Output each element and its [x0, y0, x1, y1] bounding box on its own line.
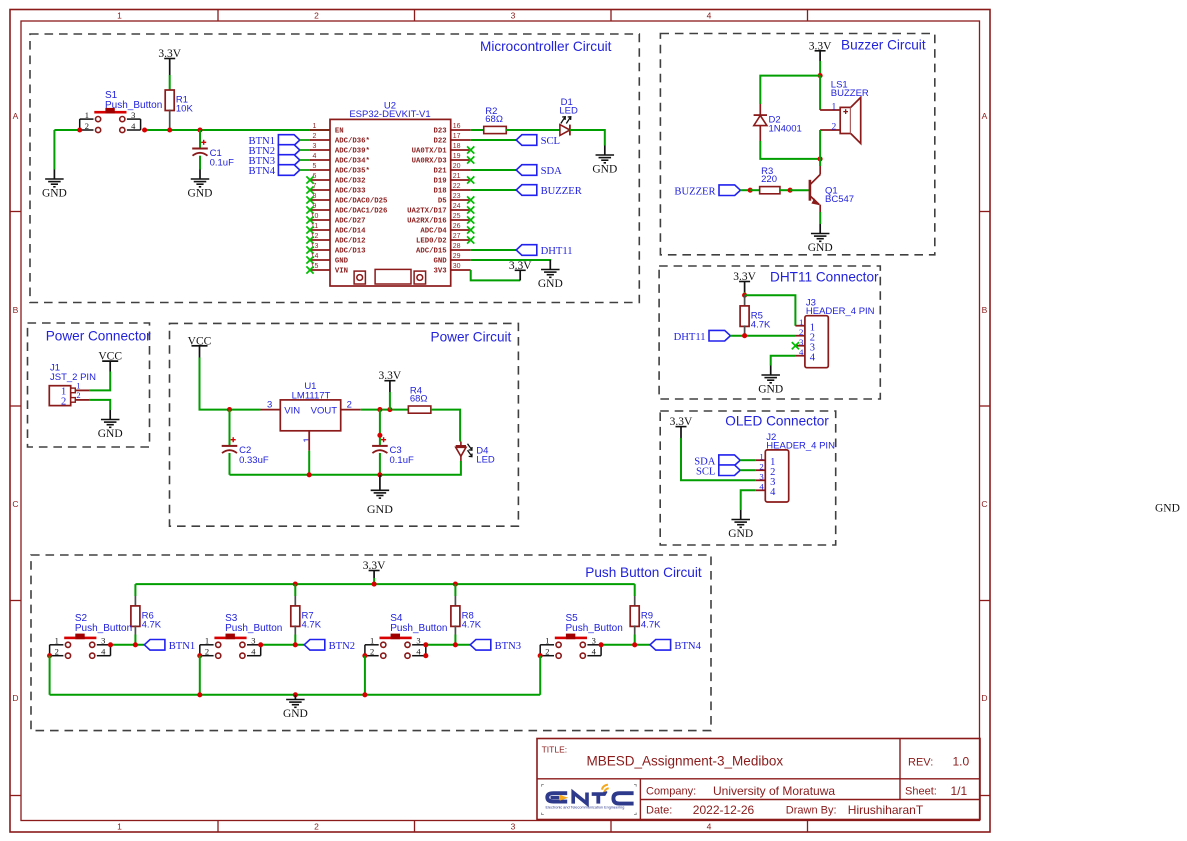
ground (Q1) [808, 224, 833, 254]
U2 bottom boot button right [414, 271, 426, 284]
svg-text:ADC/D14: ADC/D14 [335, 228, 366, 236]
junction S1 pin4 [142, 127, 147, 132]
wire node to R5 [744, 295, 746, 306]
svg-text:GND: GND [808, 242, 833, 254]
hier label SDA (OLED) [694, 455, 740, 468]
svg-text:C: C [981, 499, 987, 509]
U2 pin 20 D21 [433, 163, 470, 176]
junction 3.3V branch [387, 407, 392, 412]
resistor R3 [760, 166, 780, 194]
title block outline [537, 739, 980, 820]
hier label BTN4 (buttons) [650, 640, 702, 653]
svg-text:3: 3 [313, 143, 317, 150]
wire 3.3V to node 2 [744, 292, 746, 295]
svg-text:220: 220 [761, 174, 777, 185]
hier label BTN1 (buttons) [144, 640, 195, 653]
svg-text:UA0RX/D3: UA0RX/D3 [412, 158, 448, 166]
wire DHT11 to J3 pin2 [730, 335, 795, 337]
title block REV field [908, 755, 970, 769]
svg-text:1: 1 [545, 636, 549, 646]
wire 3.3V to node [819, 61, 821, 76]
wire S5 to BTN4 node [601, 644, 650, 646]
wire VOUT to R4 [361, 409, 409, 411]
svg-text:Push_Button: Push_Button [566, 623, 623, 634]
resistor R7 [291, 606, 322, 630]
svg-text:LED0/D2: LED0/D2 [416, 238, 447, 246]
junction BTN3 node [453, 642, 458, 647]
wire S4 down [364, 656, 366, 695]
wire D1 to GND [570, 130, 605, 146]
U2 pin 24 UA2TX/D17 [407, 203, 471, 216]
svg-text:2: 2 [313, 133, 317, 140]
switch S5 (S5 push button) [540, 613, 623, 658]
U2 pin 9 ADC/DAC1/D26 [310, 203, 387, 216]
U2 pin 8 ADC/DAC0/D25 [310, 193, 387, 206]
svg-text:Push_Button: Push_Button [75, 623, 132, 634]
svg-text:GND: GND [367, 502, 393, 516]
frame column labels [117, 10, 712, 831]
svg-text:D18: D18 [433, 188, 446, 196]
svg-text:MBESD_Assignment-3_Medibox: MBESD_Assignment-3_Medibox [587, 754, 784, 769]
svg-text:ADC/D15: ADC/D15 [416, 248, 447, 256]
junction S4 pin2 [362, 653, 367, 658]
svg-text:BTN1: BTN1 [169, 641, 195, 652]
wire C1 to GND [199, 156, 201, 170]
svg-text:1: 1 [313, 123, 317, 130]
no-connect pin 19 [467, 156, 474, 163]
wire SDA to J2 pin1 [740, 459, 756, 461]
hier label BTN3 (buttons) [470, 640, 521, 653]
U2 pin 7 ADC/D33 [310, 183, 366, 196]
U2 pin 30 3V3 [433, 263, 470, 276]
svg-text:GND: GND [1155, 503, 1180, 515]
svg-text:Power Connector: Power Connector [46, 329, 151, 344]
wire R6 to node [134, 635, 136, 645]
wire R5 to DHT11 net [744, 325, 746, 335]
svg-text:Buzzer Circuit: Buzzer Circuit [841, 38, 926, 53]
wire 3.3V to VOUT net [389, 392, 391, 410]
svg-text:GND: GND [283, 708, 308, 720]
svg-text:2: 2 [76, 390, 80, 400]
svg-text:2: 2 [314, 821, 319, 831]
power 3.3V (buzzer) [809, 40, 832, 52]
svg-text:20: 20 [453, 163, 461, 170]
wire BUZZER to R3 [740, 189, 750, 191]
wire 3.3V stub 6 [373, 571, 375, 579]
svg-text:0.1uF: 0.1uF [210, 158, 234, 169]
LED D4 [456, 442, 495, 466]
wire D4 to bottom rail [230, 461, 461, 475]
svg-text:REV:: REV: [908, 757, 933, 769]
wire pin20 to SDA [471, 169, 517, 171]
power VCC (J1) [98, 351, 122, 363]
no-connect pin 9 [306, 206, 313, 213]
svg-text:SDA: SDA [541, 166, 563, 177]
svg-text:Sheet:: Sheet: [905, 786, 937, 798]
wire S1 to U2 pin1 [145, 129, 330, 131]
wire top rail 3.3V [135, 583, 634, 585]
no-connect pin 8 [306, 196, 313, 203]
svg-text:EN: EN [335, 128, 344, 136]
hier label DHT11 (connector) [674, 330, 731, 343]
wire pin28 to DHT11 [471, 249, 517, 251]
svg-text:0.1uF: 0.1uF [390, 455, 414, 466]
no-connect pin 26 [467, 226, 474, 233]
svg-text:BUZZER: BUZZER [831, 88, 869, 99]
capacitor C1 [192, 140, 234, 169]
svg-text:2: 2 [759, 462, 763, 472]
svg-text:GND: GND [42, 187, 67, 199]
ground (S1) [42, 170, 67, 200]
junction U1 pin1/rail [307, 472, 312, 477]
wire 3.3V to rail [373, 578, 375, 584]
U2 pin 5 ADC/D35* [310, 163, 370, 176]
svg-text:2: 2 [205, 647, 209, 657]
switch S4 (S4 push button) [365, 613, 448, 658]
svg-text:4: 4 [770, 487, 776, 498]
U2 bottom usb connector [375, 269, 411, 284]
junction C3 branch [377, 407, 382, 412]
wire pin16 to R2 [471, 129, 484, 131]
svg-text:10K: 10K [176, 103, 194, 114]
ground (J3) [758, 366, 783, 396]
hier label BTN2 (input) [249, 145, 300, 158]
junction R5 top [742, 293, 747, 298]
svg-text:HEADER_4 PIN: HEADER_4 PIN [766, 440, 835, 451]
ground (buttons) [283, 695, 308, 720]
U2 pin 6 ADC/D32 [310, 173, 366, 186]
svg-text:1: 1 [117, 821, 122, 831]
connector J1 JST_2 PIN [49, 363, 96, 408]
wire pin17 to SCL [471, 139, 517, 141]
junction R3 left [748, 188, 753, 193]
svg-text:25: 25 [453, 213, 461, 220]
resistor R8 [451, 606, 482, 630]
junction bottom rail [293, 692, 298, 697]
wire R2 to D1 [506, 129, 560, 131]
svg-text:22: 22 [453, 183, 461, 190]
junction C1/main wire [197, 127, 202, 132]
switch S3 (S3 push button) [200, 613, 283, 658]
svg-text:2: 2 [55, 647, 59, 657]
svg-text:4: 4 [592, 647, 597, 657]
svg-text:BUZZER: BUZZER [541, 186, 583, 197]
svg-text:68Ω: 68Ω [410, 394, 428, 405]
svg-text:2: 2 [799, 327, 803, 337]
U2 pin 29 GND [433, 253, 470, 266]
U2 pin 14 GND [310, 253, 349, 266]
svg-text:23: 23 [453, 193, 461, 200]
svg-text:4: 4 [251, 647, 256, 657]
wire rail to R7 [294, 584, 296, 596]
wire to Q1 base [790, 189, 809, 191]
wire J3 pin4 to GND [771, 356, 796, 366]
svg-text:3: 3 [251, 636, 255, 646]
wire R7 to node [294, 635, 296, 645]
svg-text:LED: LED [559, 106, 578, 117]
wire node to J3 pin1 [745, 295, 796, 326]
svg-text:29: 29 [453, 253, 461, 260]
svg-text:ADC/D27: ADC/D27 [335, 218, 366, 226]
wire 3.3V stub buzzer [819, 51, 821, 61]
wire S2 to BTN1 node [111, 644, 145, 646]
svg-text:1N4001: 1N4001 [769, 124, 802, 135]
svg-text:26: 26 [453, 223, 461, 230]
junction rail/R7 [293, 582, 298, 587]
svg-text:D: D [12, 693, 18, 703]
wire 3.3V stub [169, 59, 171, 76]
wire to GND left [53, 130, 55, 170]
resistor R6 [131, 606, 162, 630]
svg-text:2: 2 [370, 647, 374, 657]
capacitor C3 [372, 437, 414, 466]
svg-text:30: 30 [453, 263, 461, 270]
power 3.3V (DHT11) [733, 271, 756, 283]
wire to R3 [750, 189, 759, 191]
svg-text:D23: D23 [433, 128, 447, 136]
hier label BTN1 (input) [249, 135, 300, 148]
wire R4 to D4 [431, 410, 460, 442]
hier label SCL (OLED) [696, 465, 740, 478]
resistor R2 [484, 106, 507, 134]
svg-text:GND: GND [335, 258, 349, 266]
wire stub R9 bottom [634, 625, 636, 634]
junction BTN1 node [133, 642, 138, 647]
junction S3 pin2 [197, 653, 202, 658]
U2 pin 3 ADC/D39* [310, 143, 370, 156]
svg-text:4.7K: 4.7K [302, 619, 322, 630]
junction R1/main wire [167, 127, 172, 132]
ground (pin29) [538, 260, 563, 290]
no-connect pin 12 [306, 236, 313, 243]
wire stub R7 bottom [294, 625, 296, 634]
wire J2 pin4 to GND [741, 490, 756, 510]
svg-text:1: 1 [832, 103, 837, 113]
svg-text:GND: GND [98, 428, 123, 440]
no-connect pin 25 [467, 216, 474, 223]
svg-text:ADC/DAC0/D25: ADC/DAC0/D25 [335, 198, 388, 206]
junction rail/R8 [453, 582, 458, 587]
svg-text:1: 1 [117, 10, 122, 20]
no-connect J3 pin3 [792, 342, 799, 349]
svg-text:1: 1 [302, 437, 313, 442]
svg-text:5: 5 [313, 163, 317, 170]
wire 3.3V to J2 pin3 [681, 438, 756, 480]
svg-text:D22: D22 [433, 138, 446, 146]
Push Button Circuit section box [31, 555, 711, 731]
svg-text:ESP32-DEVKIT-V1: ESP32-DEVKIT-V1 [349, 109, 430, 120]
U2 pin 21 D19 [433, 173, 470, 186]
junction buzzer bottom [818, 156, 823, 161]
wire S3 to BTN2 node [261, 644, 305, 646]
title block sheet field [905, 784, 968, 798]
wire S3 down [199, 656, 201, 695]
wire D2 bottom to node [760, 141, 820, 159]
wire R9 to node [634, 635, 636, 645]
wire stub R8 top [454, 596, 456, 606]
frame row labels [12, 111, 987, 703]
junction R3 right [788, 188, 793, 193]
wire Q1 emitter to GND [819, 212, 821, 224]
wire SCL to J2 pin2 [740, 469, 756, 471]
svg-text:1: 1 [759, 452, 763, 462]
svg-text:A: A [982, 111, 988, 121]
svg-text:2: 2 [314, 10, 319, 20]
wire 3.3V symbol stub [519, 270, 521, 280]
svg-text:1.0: 1.0 [953, 755, 970, 769]
wire 3.3V stub 5 [680, 427, 682, 438]
svg-text:1: 1 [370, 636, 374, 646]
wire node to Q1 collector [819, 159, 821, 166]
junction C3 stub [377, 433, 382, 438]
no-connect pin 23 [467, 196, 474, 203]
resistor R1 [165, 90, 193, 114]
no-connect pin 14 [306, 256, 313, 263]
wire to C2 [229, 410, 231, 446]
svg-text:JST_2 PIN: JST_2 PIN [50, 372, 96, 383]
U2 pin 28 ADC/D15 [416, 243, 471, 256]
svg-text:ADC/D4: ADC/D4 [420, 228, 447, 236]
U2 pin 27 LED0/D2 [416, 233, 471, 246]
svg-text:28: 28 [453, 243, 461, 250]
svg-text:4: 4 [131, 121, 136, 131]
hier label DHT11 [516, 245, 572, 258]
ENTC logo [542, 785, 637, 815]
wire VCC stub 2 [199, 346, 201, 358]
IC U2 ESP32-DEVKIT-V1 body [330, 101, 451, 287]
U2 pin 11 ADC/D14 [310, 223, 366, 236]
svg-text:4.7K: 4.7K [142, 619, 162, 630]
wire LS1 pin2 to node [819, 130, 821, 159]
Power Circuit section box [170, 323, 519, 526]
svg-text:4: 4 [707, 10, 712, 20]
no-connect pin 21 [467, 176, 474, 183]
svg-text:3: 3 [267, 400, 272, 411]
junction S5 pin2 [538, 653, 543, 658]
svg-text:D: D [981, 693, 987, 703]
svg-text:A: A [13, 111, 19, 121]
svg-text:D21: D21 [433, 168, 447, 176]
switch S1 (S1 push button) [80, 90, 163, 133]
svg-text:4.7K: 4.7K [751, 319, 771, 330]
svg-text:VIN: VIN [284, 405, 300, 416]
svg-text:BTN4: BTN4 [674, 641, 701, 652]
svg-text:ADC/D36*: ADC/D36* [335, 138, 370, 146]
svg-text:DHT11 Connector: DHT11 Connector [770, 270, 879, 285]
junction S2 pin3 [108, 642, 113, 647]
OLED Connector section box [660, 411, 836, 545]
svg-text:C: C [12, 499, 18, 509]
wire to C3 [379, 410, 381, 446]
svg-text:2: 2 [61, 396, 66, 407]
svg-text:BUZZER: BUZZER [674, 186, 716, 197]
svg-text:4: 4 [313, 153, 317, 160]
power 3.3V (R1) [158, 48, 181, 60]
svg-text:1: 1 [205, 636, 209, 646]
junction BTN2 node [293, 642, 298, 647]
switch S2 (S2 push button) [50, 613, 133, 658]
wire 3.3V stub 4 [744, 282, 746, 293]
svg-text:DHT11: DHT11 [541, 246, 573, 257]
svg-text:2022-12-26: 2022-12-26 [693, 803, 755, 817]
power 3.3V (regulator out) [379, 370, 402, 382]
svg-text:GND: GND [728, 528, 753, 540]
connector J2 (J2 HEADER_4 PIN) [756, 432, 835, 502]
U2 pin 12 ADC/D12 [310, 233, 366, 246]
wire rail to R8 [454, 584, 456, 596]
svg-text:ADC/D33: ADC/D33 [335, 188, 366, 196]
svg-text:19: 19 [453, 153, 461, 160]
svg-text:18: 18 [453, 143, 461, 150]
power 3.3V (pin30) [509, 260, 532, 272]
junction S5 pin3 [599, 642, 604, 647]
no-connect pin 18 [467, 146, 474, 153]
Power Connector section box [28, 323, 150, 447]
svg-text:UA2TX/D17: UA2TX/D17 [407, 208, 446, 216]
svg-text:HirushiharanT: HirushiharanT [848, 803, 924, 817]
svg-text:BC547: BC547 [825, 194, 854, 205]
wire J1 pin2 to GND [89, 400, 110, 410]
wire BTN1 to pin [300, 139, 310, 141]
svg-text:4.7K: 4.7K [462, 619, 482, 630]
LED D1 [559, 97, 578, 135]
svg-text:ADC/DAC1/D26: ADC/DAC1/D26 [335, 208, 388, 216]
svg-text:Push_Button: Push_Button [390, 623, 447, 634]
svg-text:OLED Connector: OLED Connector [725, 414, 829, 429]
svg-text:HEADER_4 PIN: HEADER_4 PIN [806, 306, 875, 317]
wire pin30 to 3.3V [471, 270, 521, 280]
no-connect pin 10 [306, 216, 313, 223]
wire stub R8 bottom [454, 625, 456, 634]
wire R3 to base node [780, 189, 790, 191]
svg-text:LED: LED [476, 455, 495, 466]
svg-text:GND: GND [538, 278, 563, 290]
svg-text:1/1: 1/1 [951, 784, 968, 798]
svg-text:Date:: Date: [646, 805, 672, 817]
svg-text:Company:: Company: [646, 786, 696, 798]
ground (C1) [188, 170, 213, 200]
wire 3.3V stub 3 [389, 381, 391, 392]
U2 pin 17 D22 [433, 133, 470, 146]
svg-text:4: 4 [810, 353, 816, 364]
resistor R5 [740, 306, 771, 330]
wire VCC to U1 VIN [200, 358, 261, 410]
no-connect pin 6 [306, 176, 313, 183]
capacitor C2 [222, 437, 269, 466]
Microcontroller Circuit section box [30, 34, 639, 303]
wire U1 pin1 to rail [308, 451, 310, 475]
svg-text:GND: GND [433, 258, 447, 266]
svg-text:3: 3 [511, 10, 516, 20]
svg-text:VIN: VIN [335, 268, 348, 276]
hier label BTN2 (buttons) [304, 640, 355, 653]
U2 pin 25 UA2RX/D16 [407, 213, 471, 226]
junction rail/3.3V [372, 582, 377, 587]
wire main to C1 [199, 130, 201, 149]
power VCC (power circuit) [188, 335, 212, 347]
svg-text:DHT11: DHT11 [674, 332, 706, 343]
svg-text:1: 1 [55, 636, 59, 646]
power 3.3V (buttons) [363, 560, 386, 572]
svg-text:Push Button Circuit: Push Button Circuit [585, 565, 702, 580]
svg-text:ADC/D34*: ADC/D34* [335, 158, 370, 166]
wire rail to R9 [634, 584, 636, 596]
resistor R4 [408, 385, 431, 413]
wire pin29 to GND [471, 259, 551, 262]
svg-text:UA2RX/D16: UA2RX/D16 [407, 218, 446, 226]
svg-text:D19: D19 [433, 178, 446, 186]
svg-text:BTN2: BTN2 [329, 641, 355, 652]
